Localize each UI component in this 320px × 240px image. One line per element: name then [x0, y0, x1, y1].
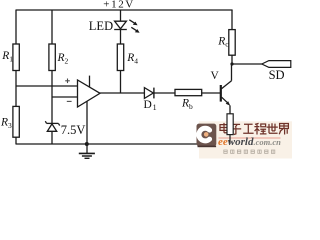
svg-text:LED: LED: [89, 19, 113, 33]
svg-text:3: 3: [8, 121, 12, 130]
svg-text:R: R: [126, 52, 134, 64]
svg-text:1: 1: [153, 103, 157, 112]
svg-text:D: D: [144, 99, 152, 111]
svg-text:1: 1: [9, 54, 13, 63]
svg-text:R: R: [57, 52, 65, 64]
svg-text:b: b: [189, 102, 193, 111]
svg-text:7.5V: 7.5V: [61, 123, 86, 137]
svg-text:+12V: +12V: [103, 0, 135, 10]
svg-text:R: R: [217, 35, 225, 47]
svg-text:V: V: [211, 70, 220, 82]
svg-text:SD: SD: [269, 68, 285, 82]
svg-text:eeworld.com.cn: eeworld.com.cn: [218, 136, 281, 148]
svg-text:R: R: [181, 97, 189, 109]
svg-text:R: R: [1, 50, 9, 62]
svg-text:R: R: [0, 116, 8, 128]
svg-text:4: 4: [134, 57, 138, 66]
svg-text:2: 2: [65, 57, 69, 66]
